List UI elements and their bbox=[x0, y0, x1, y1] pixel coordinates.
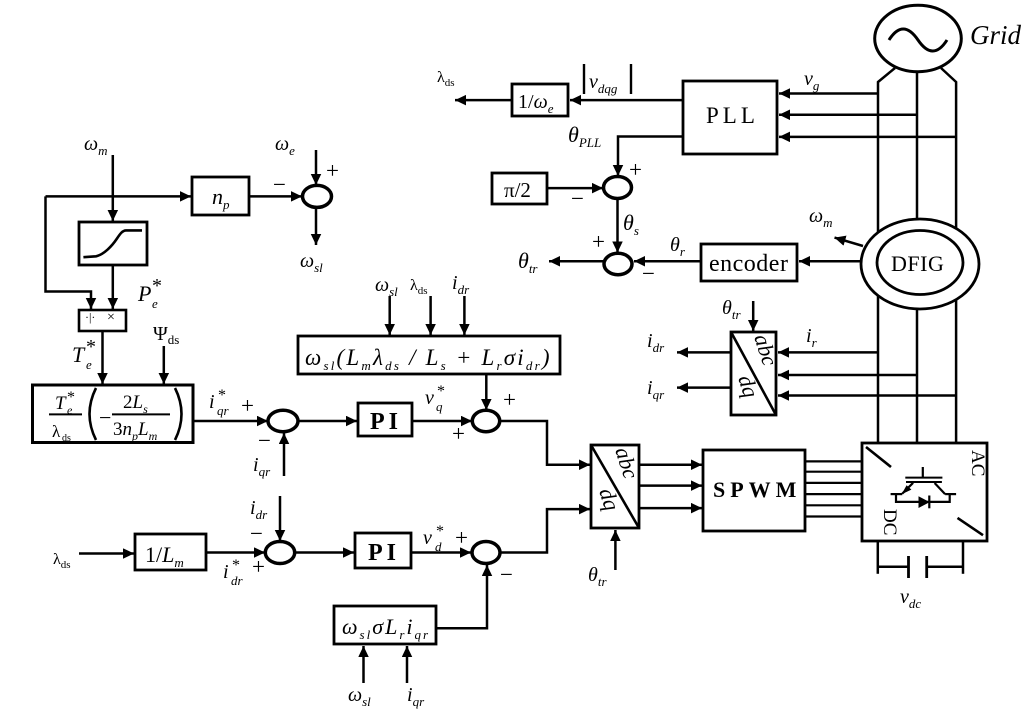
node T_e* label bbox=[72, 336, 96, 372]
sign minus bbox=[500, 562, 513, 587]
svg-text:encoder: encoder bbox=[709, 251, 788, 277]
wire v_q junction to abc-dq converter bbox=[500, 421, 590, 465]
svg-text:−: − bbox=[250, 521, 263, 546]
node Psi_ds label bbox=[153, 323, 179, 347]
sign plus bbox=[241, 393, 254, 418]
svg-text:*: * bbox=[152, 275, 162, 297]
wire three-phase left line bbox=[878, 68, 895, 443]
wire grid voltage tap 3 to PLL bbox=[779, 136, 956, 139]
node v_q* label bbox=[425, 383, 445, 414]
wire v_d junction to abc-dq converter bbox=[500, 509, 590, 552]
block rotor-side inverter bbox=[862, 443, 988, 541]
wire i_qr output bbox=[677, 386, 731, 389]
summing junction theta_tr bbox=[604, 253, 632, 274]
block n_p bbox=[192, 177, 249, 215]
block pi/2 bbox=[492, 173, 547, 204]
wire divider to formula block bbox=[101, 331, 104, 384]
wire grid voltage tap 2 to PLL bbox=[779, 114, 917, 117]
wire lambda_ds to 1/Lm bbox=[79, 552, 134, 555]
node v_g label bbox=[804, 68, 820, 93]
wire i_dr into slip block bbox=[463, 296, 466, 335]
block PI q-axis bbox=[358, 403, 412, 436]
wire pi/2 to theta junction bbox=[547, 187, 603, 190]
summing junction omega_sl bbox=[303, 185, 332, 207]
svg-text:ωsl(Lmλds / Ls + Lrσidr): ωsl(Lmλds / Ls + Lrσidr) bbox=[305, 345, 552, 373]
block rotor current abc-dq bbox=[731, 331, 783, 415]
svg-text:SPWM: SPWM bbox=[713, 477, 801, 502]
sign plus bbox=[629, 157, 642, 182]
node i_dr input label bbox=[452, 272, 470, 297]
svg-text:i: i bbox=[209, 391, 215, 413]
svg-text:−: − bbox=[99, 405, 111, 430]
node theta_tr under converter bbox=[588, 564, 607, 589]
node i_qr* label bbox=[209, 387, 230, 418]
block 1/we bbox=[512, 84, 568, 116]
summing junction i_qr bbox=[268, 410, 298, 431]
wire junction to PI bbox=[298, 420, 357, 423]
wire 1/Lm to junction bbox=[206, 551, 265, 554]
svg-text:v: v bbox=[425, 387, 434, 409]
wire theta_tr output arrow bbox=[549, 260, 604, 263]
svg-text:*: * bbox=[218, 387, 226, 404]
wire formula block to summing junction bbox=[193, 420, 268, 423]
svg-text:v: v bbox=[423, 527, 432, 549]
node i_dr feedback label row2 bbox=[250, 497, 268, 522]
node omega_m label bbox=[84, 133, 108, 158]
wire theta_tr down into rotor converter bbox=[752, 301, 755, 331]
svg-text:−: − bbox=[500, 562, 513, 587]
wire slip block down to v_q junction bbox=[485, 374, 488, 410]
machine DFIG bbox=[861, 219, 979, 309]
wire rotor current tap 3 bbox=[778, 394, 956, 397]
node v_dqg magnitude label bbox=[584, 64, 631, 96]
svg-text:+: + bbox=[452, 421, 465, 446]
node theta_tr output label bbox=[518, 248, 538, 276]
svg-text:π/2: π/2 bbox=[504, 178, 531, 202]
wire junction output omega_sl bbox=[315, 208, 318, 246]
node lambda_ds output label bbox=[437, 69, 455, 89]
node P_e* label bbox=[137, 275, 162, 311]
wire grid voltage tap 1 to PLL bbox=[779, 92, 878, 95]
svg-text:PLL: PLL bbox=[706, 103, 759, 128]
block SPWM bbox=[703, 450, 805, 531]
node omega_sl input label bbox=[375, 274, 398, 299]
svg-text:×: × bbox=[107, 310, 115, 325]
sign plus bbox=[452, 421, 465, 446]
svg-text:*: * bbox=[232, 557, 240, 574]
wire DFIG to encoder bbox=[799, 260, 861, 263]
source Grid bbox=[875, 5, 962, 71]
node v_dc label bbox=[900, 586, 921, 611]
svg-text:qr: qr bbox=[217, 403, 230, 418]
wire omega_m down into curve block bbox=[112, 155, 115, 221]
svg-text:*: * bbox=[436, 523, 444, 540]
block decoupling term bbox=[334, 606, 436, 644]
wire theta_tr up into converter bbox=[614, 530, 617, 570]
svg-text:ds: ds bbox=[62, 433, 71, 444]
svg-text:T: T bbox=[72, 342, 86, 367]
wire converter to SPWM line2 bbox=[639, 484, 702, 487]
wire rotor current tap 1 bbox=[778, 351, 878, 354]
svg-text:q: q bbox=[436, 399, 443, 414]
wire n_p to summing junction bbox=[249, 195, 302, 198]
node lambda_ds input label bbox=[410, 277, 428, 297]
wire decoupling block to v_d junction bbox=[436, 565, 487, 628]
node i_qr bottom label bbox=[407, 684, 425, 709]
node i_dr output label bbox=[647, 330, 665, 355]
transistor IGBT with diode bbox=[891, 467, 957, 508]
sign plus bbox=[326, 158, 339, 183]
wire inverter DC left leg bbox=[877, 541, 880, 574]
sign plus bbox=[455, 525, 468, 550]
wire feedback branch to divider block bbox=[46, 196, 92, 309]
wire junction to PI d-axis bbox=[295, 551, 354, 554]
wire omega_e into junction bbox=[315, 150, 318, 185]
block 1/Lm bbox=[135, 534, 206, 570]
wire i_qr into decoupling block bbox=[406, 646, 409, 683]
svg-text:e: e bbox=[86, 357, 92, 372]
svg-text:+: + bbox=[503, 387, 516, 412]
svg-text:−: − bbox=[642, 261, 655, 286]
wire i_dr down into junction bbox=[279, 496, 282, 541]
svg-text:e: e bbox=[152, 296, 158, 311]
summing junction i_dr bbox=[265, 542, 294, 564]
svg-text:+: + bbox=[241, 393, 254, 418]
svg-text:−: − bbox=[258, 428, 271, 453]
wire omega_sl into decoupling block bbox=[362, 646, 365, 683]
wire PI to v_q junction bbox=[412, 420, 472, 423]
svg-text:i: i bbox=[223, 561, 229, 583]
wire lambda_ds output arrow bbox=[455, 99, 512, 102]
block divide-multiply bbox=[79, 310, 126, 331]
sign minus bbox=[571, 186, 584, 211]
wire inverter DC right leg bbox=[962, 541, 965, 574]
svg-text:+: + bbox=[252, 554, 265, 579]
wire PI to v_d junction bbox=[411, 551, 471, 554]
svg-text:+: + bbox=[629, 157, 642, 182]
wire curve block to divider bbox=[112, 265, 115, 309]
capacitor v_dc bbox=[878, 556, 963, 578]
svg-text:Grid: Grid bbox=[970, 20, 1022, 50]
node i_qr feedback label bbox=[253, 454, 271, 479]
wire theta_s down to second junction bbox=[616, 199, 619, 253]
node Grid label bbox=[970, 20, 1022, 50]
block slip compensation formula bbox=[298, 336, 560, 374]
wire DFIG speed arrow bbox=[835, 238, 864, 246]
sign minus bbox=[273, 172, 286, 197]
wire gate lines SPWM to inverter bbox=[805, 461, 862, 516]
wire PLL down to theta junction bbox=[618, 137, 683, 177]
svg-text:PI: PI bbox=[368, 540, 400, 566]
svg-text:*: * bbox=[86, 336, 96, 358]
node omega_m at DFIG bbox=[809, 205, 833, 230]
node theta_r label bbox=[670, 234, 686, 259]
node i_qr output label bbox=[647, 377, 665, 402]
wire main horizontal to n_p bbox=[46, 195, 192, 198]
svg-text:dr: dr bbox=[231, 573, 244, 588]
wire converter to SPWM line1 bbox=[639, 463, 702, 466]
block dq-to-abc converter bbox=[591, 444, 644, 528]
svg-text:*: * bbox=[437, 383, 445, 400]
sign plus bbox=[592, 229, 605, 254]
wire PLL to 1/we block bbox=[570, 99, 683, 102]
node omega_sl bottom label bbox=[348, 684, 371, 709]
wire Psi_ds into formula block bbox=[163, 346, 166, 384]
node i_dr* label bbox=[223, 557, 244, 588]
svg-text:λ: λ bbox=[52, 422, 61, 441]
svg-text:−: − bbox=[571, 186, 584, 211]
block PLL bbox=[683, 81, 777, 154]
block PI d-axis bbox=[355, 533, 411, 568]
sign minus bbox=[642, 261, 655, 286]
wire encoder to theta junction bbox=[634, 260, 701, 263]
block power curve bbox=[79, 222, 147, 265]
node omega_e label bbox=[275, 133, 295, 158]
node v_d* label bbox=[423, 523, 444, 554]
wire omega_sl into slip block bbox=[388, 296, 391, 335]
sign minus bbox=[250, 521, 263, 546]
sign plus bbox=[252, 554, 265, 579]
node theta_PLL label bbox=[568, 122, 601, 150]
svg-text:AC: AC bbox=[967, 450, 988, 476]
sign minus bbox=[258, 428, 271, 453]
sign plus bbox=[503, 387, 516, 412]
node omega_sl label bbox=[300, 250, 323, 275]
node lambda_ds left label bbox=[53, 551, 71, 571]
svg-text:·|·: ·|· bbox=[85, 310, 95, 324]
svg-text:+: + bbox=[592, 229, 605, 254]
wire i_dr output bbox=[677, 351, 731, 354]
node i_r label bbox=[806, 325, 818, 350]
svg-text:P: P bbox=[137, 281, 151, 306]
svg-text:DC: DC bbox=[879, 509, 900, 535]
svg-text:−: − bbox=[273, 172, 286, 197]
wire i_qr feedback up bbox=[283, 433, 286, 476]
svg-text:+: + bbox=[455, 525, 468, 550]
wire three-phase right line bbox=[941, 68, 956, 443]
svg-text:DFIG: DFIG bbox=[891, 251, 944, 276]
node theta_tr above rotor converter bbox=[722, 297, 741, 322]
svg-text:+: + bbox=[326, 158, 339, 183]
wire lambda_ds into slip block bbox=[429, 296, 432, 335]
block torque-to-current formula bbox=[33, 385, 194, 444]
summing junction theta_s bbox=[604, 177, 632, 199]
block encoder bbox=[701, 244, 797, 281]
node theta_s label bbox=[623, 210, 639, 238]
wire converter to SPWM line3 bbox=[639, 507, 702, 510]
summing junction v_q bbox=[472, 410, 499, 431]
wire three-phase middle line bbox=[916, 70, 919, 443]
summing junction v_d bbox=[472, 542, 500, 564]
svg-text:PI: PI bbox=[370, 409, 402, 435]
wire rotor current tap 2 bbox=[778, 374, 917, 377]
svg-text:T: T bbox=[55, 393, 67, 414]
